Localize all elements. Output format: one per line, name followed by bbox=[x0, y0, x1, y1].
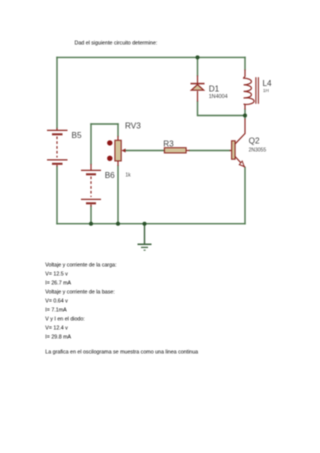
svg-text:D1: D1 bbox=[209, 85, 220, 94]
svg-text:1H: 1H bbox=[263, 88, 269, 93]
svg-text:I= 7.1mA: I= 7.1mA bbox=[45, 307, 67, 313]
svg-text:Q2: Q2 bbox=[249, 136, 260, 145]
svg-text:R3: R3 bbox=[163, 139, 174, 148]
svg-text:1k: 1k bbox=[125, 173, 131, 179]
svg-text:1N4004: 1N4004 bbox=[209, 94, 228, 100]
svg-text:I= 29.8 mA: I= 29.8 mA bbox=[45, 334, 71, 340]
svg-text:V= 12.5 v: V= 12.5 v bbox=[45, 271, 68, 277]
svg-text:B6: B6 bbox=[105, 171, 115, 180]
svg-text:La grafica en el oscilograma s: La grafica en el oscilograma se muestra … bbox=[45, 350, 198, 356]
svg-text:Voltaje y corriente de la base: Voltaje y corriente de la base: bbox=[45, 289, 115, 295]
svg-text:2N3055: 2N3055 bbox=[249, 148, 267, 154]
svg-text:L4: L4 bbox=[263, 79, 273, 88]
svg-text:Dad el siguiente circuito dete: Dad el siguiente circuito determine: bbox=[75, 40, 158, 46]
svg-text:Voltaje y corriente de la carg: Voltaje y corriente de la carga: bbox=[45, 262, 116, 268]
svg-text:I= 26.7 mA: I= 26.7 mA bbox=[45, 280, 71, 286]
svg-text:V y I en el diodo:: V y I en el diodo: bbox=[45, 316, 84, 322]
svg-text:V= 12.4 v: V= 12.4 v bbox=[45, 325, 68, 331]
svg-text:B5: B5 bbox=[72, 131, 82, 140]
svg-text:V= 0.64 v: V= 0.64 v bbox=[45, 298, 68, 304]
svg-text:RV3: RV3 bbox=[125, 121, 141, 130]
